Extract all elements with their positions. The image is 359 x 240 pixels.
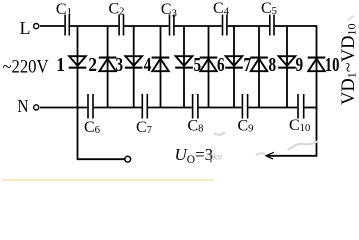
svg-text:8: 8 <box>269 54 277 76</box>
svg-text:2: 2 <box>88 54 97 76</box>
svg-text:N: N <box>18 96 29 116</box>
svg-text:~220V: ~220V <box>3 57 49 78</box>
svg-text:VD1~VD10: VD1~VD10 <box>339 24 359 105</box>
svg-text:9: 9 <box>296 54 304 76</box>
svg-text:1: 1 <box>56 54 65 76</box>
svg-text:7: 7 <box>244 54 252 76</box>
svg-text:kv: kv <box>213 152 222 163</box>
svg-text:5: 5 <box>194 54 202 76</box>
svg-text:10: 10 <box>325 54 340 76</box>
svg-text:3: 3 <box>116 54 124 76</box>
svg-text:4: 4 <box>144 54 152 76</box>
svg-text:L: L <box>20 18 31 38</box>
svg-text:6: 6 <box>217 54 225 76</box>
